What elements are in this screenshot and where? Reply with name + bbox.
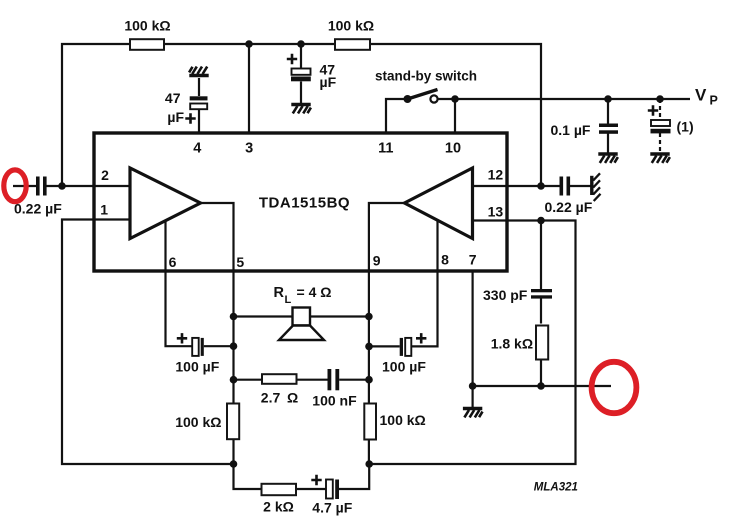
svg-text:V: V bbox=[695, 86, 707, 105]
svg-text:R: R bbox=[274, 285, 285, 301]
svg-text:2: 2 bbox=[101, 167, 109, 183]
svg-text:6: 6 bbox=[169, 254, 177, 270]
svg-text:0.1 µF: 0.1 µF bbox=[551, 122, 591, 138]
svg-text:47: 47 bbox=[165, 90, 181, 106]
svg-text:12: 12 bbox=[488, 167, 504, 183]
svg-text:TDA1515BQ: TDA1515BQ bbox=[259, 195, 350, 212]
svg-text:Ω: Ω bbox=[287, 390, 298, 406]
svg-text:= 4 Ω: = 4 Ω bbox=[297, 284, 332, 300]
svg-text:MLA321: MLA321 bbox=[534, 482, 578, 494]
svg-text:100 nF: 100 nF bbox=[312, 393, 357, 409]
svg-text:1: 1 bbox=[100, 202, 108, 218]
svg-text:3: 3 bbox=[245, 141, 253, 157]
svg-text:100 µF: 100 µF bbox=[382, 359, 426, 375]
svg-text:13: 13 bbox=[488, 204, 504, 220]
svg-text:100 kΩ: 100 kΩ bbox=[328, 18, 374, 34]
svg-text:100 µF: 100 µF bbox=[175, 359, 219, 375]
svg-text:9: 9 bbox=[373, 253, 381, 269]
svg-text:100 kΩ: 100 kΩ bbox=[380, 412, 426, 428]
svg-text:100 kΩ: 100 kΩ bbox=[124, 18, 170, 34]
svg-text:µF: µF bbox=[320, 74, 337, 90]
svg-text:µF: µF bbox=[167, 109, 184, 125]
svg-text:100 kΩ: 100 kΩ bbox=[175, 414, 221, 430]
svg-text:L: L bbox=[285, 294, 292, 306]
svg-text:11: 11 bbox=[378, 141, 393, 157]
svg-text:2.7: 2.7 bbox=[261, 390, 281, 406]
svg-text:8: 8 bbox=[441, 252, 449, 268]
svg-text:10: 10 bbox=[445, 141, 461, 157]
svg-text:2 kΩ: 2 kΩ bbox=[263, 499, 294, 515]
svg-text:0.22 µF: 0.22 µF bbox=[545, 199, 593, 215]
svg-text:(1): (1) bbox=[677, 119, 694, 135]
svg-text:P: P bbox=[710, 94, 718, 108]
svg-text:330 pF: 330 pF bbox=[483, 287, 528, 303]
svg-text:5: 5 bbox=[236, 254, 244, 270]
svg-text:0.22 µF: 0.22 µF bbox=[14, 201, 62, 217]
svg-text:4: 4 bbox=[193, 141, 201, 157]
svg-text:4.7 µF: 4.7 µF bbox=[312, 500, 352, 516]
svg-text:7: 7 bbox=[469, 252, 477, 268]
svg-text:1.8 kΩ: 1.8 kΩ bbox=[491, 336, 533, 352]
svg-text:stand-by switch: stand-by switch bbox=[375, 69, 477, 84]
